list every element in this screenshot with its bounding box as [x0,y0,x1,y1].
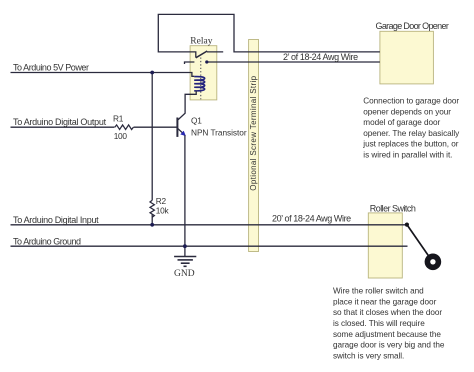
svg-text:Q1: Q1 [191,115,202,125]
svg-text:To Arduino Digital Input: To Arduino Digital Input [13,215,99,225]
svg-text:To Arduino 5V Power: To Arduino 5V Power [13,63,89,73]
ground symbol [174,257,196,267]
svg-text:switch is very small.: switch is very small. [333,351,404,360]
svg-text:Roller Switch: Roller Switch [370,203,416,213]
note: wire the roller switch [333,287,445,361]
wire: To Arduino 5V Power rail into relay coil [11,73,195,77]
svg-text:Relay: Relay [190,37,212,47]
svg-text:R1: R1 [113,114,124,124]
resistor R2 [150,200,154,217]
relay switch blade tail [207,51,223,53]
svg-text:is wired in parallel with it.: is wired in parallel with it. [363,151,452,160]
svg-text:2’ of 18-24 Awg Wire: 2’ of 18-24 Awg Wire [283,52,358,62]
svg-text:Garage Door Opener: Garage Door Opener [376,21,449,31]
transistor Q1 emitter with arrow [178,129,185,135]
wire: coil bottom to transistor collector [178,91,196,120]
svg-text:10k: 10k [156,206,170,216]
relay switch blade [196,51,207,58]
svg-text:opener. The relay basically: opener. The relay basically [363,129,460,138]
garage door opener box [380,31,434,84]
wire: To Arduino Digital Input rail [11,224,407,226]
roller wheel [425,253,442,270]
junction dot relay lower contact [205,60,208,63]
svg-text:place it near the garage door: place it near the garage door [333,297,437,306]
note: connection to garage door opener [362,97,460,160]
relay mechanical linkage (dotted) [200,58,202,100]
svg-text:model of garage door: model of garage door [363,118,440,127]
roller switch lever [407,225,432,261]
wire: To Arduino Ground rail [11,245,408,247]
wire: R2 to digital input rail [151,215,153,225]
svg-text:is closed. This will require: is closed. This will require [333,319,425,328]
junction dot 5V/R2 [150,71,154,75]
wire: To Arduino Digital Output rail (left of R1) [11,126,115,128]
wire: R1 to transistor base [134,126,177,128]
svg-text:some adjustment because the: some adjustment because the [333,330,441,339]
relay coil [194,77,205,91]
wire: relay switch left terminal loop to garage door opener [158,14,380,57]
svg-text:NPN Transistor: NPN Transistor [191,127,247,137]
wire: relay switch lower contact to garage door opener [206,61,380,63]
svg-text:opener depends on your: opener depends on your [363,107,451,116]
svg-text:To Arduino Ground: To Arduino Ground [13,236,81,246]
svg-text:Optional Screw Terminal Strip: Optional Screw Terminal Strip [249,75,258,190]
svg-text:so that it closes when the doo: so that it closes when the door [333,308,442,317]
junction dot emitter/ground rail [183,244,187,248]
relay switch lower-left stub terminal [185,62,195,64]
transistor Q1 base bar [176,118,178,137]
resistor R1 [115,125,134,130]
roller switch box [368,213,402,278]
svg-text:Connection to garage door: Connection to garage door [363,97,459,106]
svg-text:To Arduino Digital Output: To Arduino Digital Output [13,117,107,127]
wire: R2 pullup from 5V rail [151,73,153,201]
optional screw terminal strip [249,40,259,252]
svg-text:GND: GND [174,269,195,279]
relay body box [190,46,217,100]
roller switch contact dot [405,223,409,227]
svg-text:20’ of 18-24 Awg Wire: 20’ of 18-24 Awg Wire [272,213,351,223]
svg-text:just replaces the button, or: just replaces the button, or [362,140,458,149]
svg-text:garage door is very big and th: garage door is very big and the [333,341,445,350]
svg-text:Wire the roller switch and: Wire the roller switch and [333,287,424,296]
wire: emitter down to ground [184,135,186,256]
svg-text:100: 100 [114,131,128,141]
junction dot R2/digital input [150,223,154,227]
svg-text:R2: R2 [156,196,167,206]
